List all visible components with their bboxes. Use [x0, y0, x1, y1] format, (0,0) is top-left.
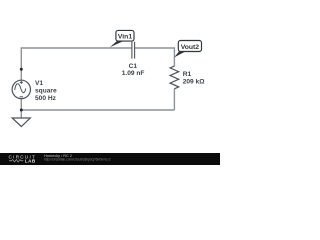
svg-text:500 Hz: 500 Hz [35, 95, 57, 102]
svg-text:http://circuitlab.com/circuit/: http://circuitlab.com/circuit/c6ky3cj76m… [44, 158, 111, 162]
svg-text:Vin1: Vin1 [118, 34, 132, 41]
svg-text:R1: R1 [183, 71, 192, 78]
svg-text:LAB: LAB [25, 158, 36, 163]
svg-text:square: square [35, 87, 57, 94]
svg-text:C1: C1 [129, 63, 138, 70]
svg-text:209 kΩ: 209 kΩ [183, 79, 206, 86]
svg-text:1.09 nF: 1.09 nF [122, 70, 145, 77]
svg-text:Vout2: Vout2 [181, 44, 200, 51]
svg-text:V1: V1 [35, 80, 43, 87]
